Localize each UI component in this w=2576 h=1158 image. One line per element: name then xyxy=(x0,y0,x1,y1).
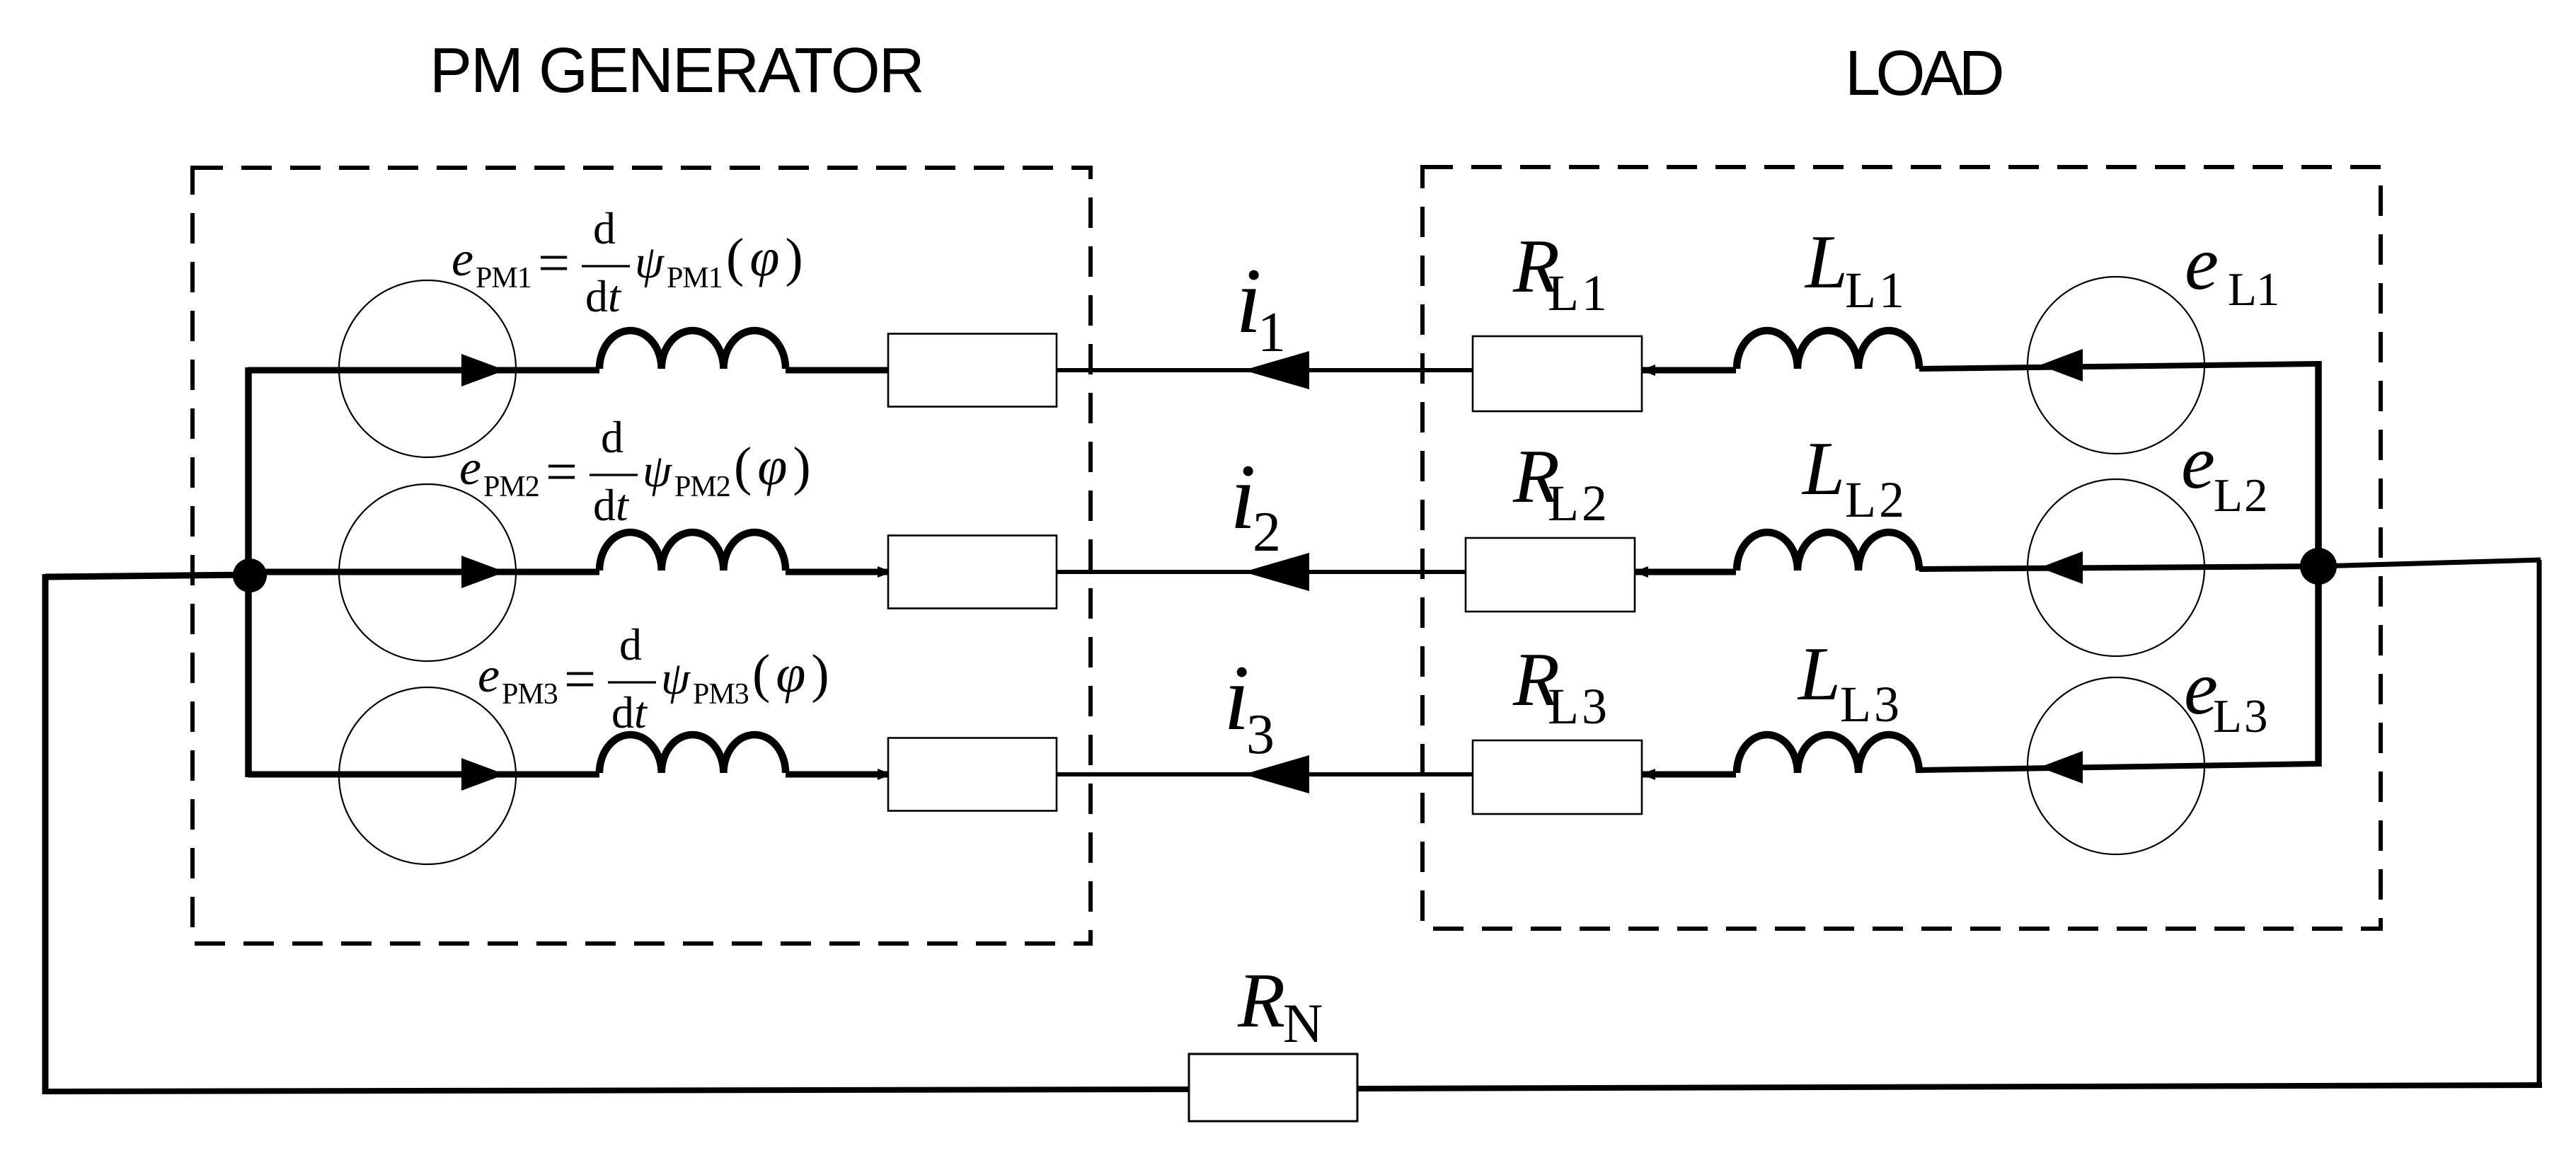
svg-text:3: 3 xyxy=(2244,690,2268,743)
svg-text:(φ): (φ) xyxy=(734,437,817,496)
svg-text:L3: L3 xyxy=(1840,676,1902,733)
svg-text:LOAD: LOAD xyxy=(1845,38,2002,109)
svg-text:(φ): (φ) xyxy=(726,228,809,287)
svg-text:dt: dt xyxy=(585,271,622,321)
svg-text:2: 2 xyxy=(1253,501,1281,563)
svg-text:L: L xyxy=(2228,263,2257,316)
svg-text:L: L xyxy=(1804,220,1848,304)
svg-text:e: e xyxy=(478,648,500,703)
svg-text:L3: L3 xyxy=(1548,678,1610,735)
svg-text:d: d xyxy=(619,619,642,670)
svg-text:N: N xyxy=(1283,992,1323,1054)
svg-text:R: R xyxy=(1237,957,1285,1043)
svg-text:ψ: ψ xyxy=(661,653,691,704)
svg-text:d: d xyxy=(601,412,623,462)
svg-text:PM GENERATOR: PM GENERATOR xyxy=(430,35,924,106)
svg-text:PM3: PM3 xyxy=(693,678,749,711)
svg-text:e: e xyxy=(2181,420,2215,505)
svg-text:=: = xyxy=(546,441,577,503)
svg-text:ψ: ψ xyxy=(643,445,672,497)
svg-text:e: e xyxy=(459,441,481,495)
svg-text:L1: L1 xyxy=(1845,262,1907,319)
svg-text:PM1: PM1 xyxy=(476,262,531,294)
svg-text:L: L xyxy=(1801,427,1845,511)
svg-text:e: e xyxy=(2185,222,2219,306)
svg-text:L: L xyxy=(2213,690,2242,743)
svg-text:L2: L2 xyxy=(1548,475,1610,532)
svg-text:PM3: PM3 xyxy=(502,678,558,711)
svg-text:3: 3 xyxy=(1246,704,1275,766)
svg-text:L2: L2 xyxy=(1845,471,1907,528)
svg-text:(φ): (φ) xyxy=(752,644,835,704)
svg-text:L: L xyxy=(1797,632,1841,716)
svg-text:1: 1 xyxy=(1258,302,1286,364)
svg-text:e: e xyxy=(452,232,473,287)
svg-text:1: 1 xyxy=(2256,263,2280,316)
svg-text:dt: dt xyxy=(611,687,648,738)
svg-text:2: 2 xyxy=(2244,469,2268,522)
svg-text:=: = xyxy=(538,232,570,294)
svg-text:L1: L1 xyxy=(1548,265,1610,321)
svg-text:ψ: ψ xyxy=(635,236,665,288)
svg-text:L: L xyxy=(2214,469,2243,522)
svg-text:PM2: PM2 xyxy=(483,471,539,503)
svg-text:PM2: PM2 xyxy=(674,471,730,503)
svg-text:d: d xyxy=(593,203,616,253)
svg-text:PM1: PM1 xyxy=(667,262,723,294)
svg-text:=: = xyxy=(564,648,596,711)
svg-text:dt: dt xyxy=(593,480,630,530)
